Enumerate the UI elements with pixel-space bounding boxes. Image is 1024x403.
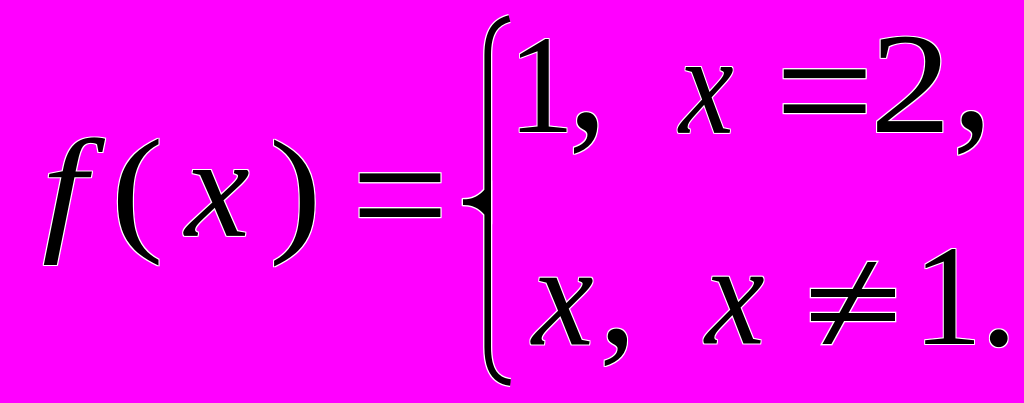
equals sign (row 1): [775, 90, 874, 92]
variable x (row 1): [679, 84, 734, 86]
not-equal sign: upper bar: [811, 289, 895, 297]
white halo strokes under brace and slash: [463, 19, 895, 383]
right parenthesis: [269, 189, 322, 191]
digit 1 (row 2): [913, 295, 982, 297]
curly brace: stem with top and bottom hooks: [488, 19, 511, 383]
italic f: [42, 188, 87, 190]
not-equal sign: lower bar: [811, 313, 895, 321]
variable x (row 2, value): [532, 295, 594, 297]
variable x (main): [185, 187, 250, 189]
variable x (row 2, condition): [705, 294, 765, 296]
period (row 2): [980, 294, 1018, 296]
equals sign (main): [351, 194, 449, 196]
digit 2 (row 1): [870, 83, 951, 85]
comma (row 1): [568, 74, 607, 76]
left parenthesis: [111, 188, 164, 190]
comma (row 2): [599, 294, 637, 296]
trailing comma (row 1): [952, 71, 993, 73]
not-equal sign: slash: [822, 262, 876, 344]
digit 1 (row 1): [508, 84, 575, 86]
curly brace: middle spike wedge: [463, 181, 491, 224]
